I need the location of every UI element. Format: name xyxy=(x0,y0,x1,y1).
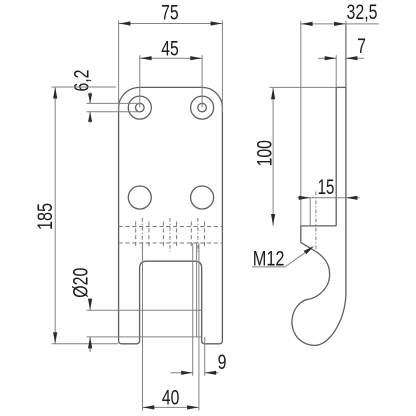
svg-text:40: 40 xyxy=(162,387,180,410)
dimension 7 line right part xyxy=(346,57,364,59)
tab right edge / 40-dim extension xyxy=(198,243,200,411)
svg-text:6,2: 6,2 xyxy=(71,70,94,92)
svg-text:M12: M12 xyxy=(253,248,285,271)
dimension 40 right arrow xyxy=(187,405,199,409)
hook bar edge extension xyxy=(204,337,206,376)
M12 leader arrow xyxy=(304,246,315,254)
dimension 7 left extension xyxy=(335,55,337,87)
top hole left outer circle xyxy=(128,96,151,119)
dimension 9 line right part xyxy=(205,372,219,374)
dimension 7 line left part xyxy=(318,57,336,59)
dimension O20 lower arrow xyxy=(88,337,92,349)
dimension 32,5 left extension xyxy=(300,21,302,226)
dimension 40 line xyxy=(143,406,199,408)
dimension 45 left extension xyxy=(139,55,141,107)
dimension 15 left extension xyxy=(309,198,311,226)
dimension 45 left arrow xyxy=(140,56,152,60)
dimension 6,2 line upper part xyxy=(89,92,91,103)
dimension 9 left arrow xyxy=(181,371,193,375)
svg-text:7: 7 xyxy=(357,35,366,58)
dimension O20 upper arrow xyxy=(88,299,92,311)
dimension 185 top extension xyxy=(52,86,117,88)
M12 leader line xyxy=(252,266,285,268)
hook bar top edge xyxy=(301,225,336,227)
bend band hidden slot 2 right edge xyxy=(176,222,178,249)
svg-text:75: 75 xyxy=(161,2,179,25)
top hole right inner circle xyxy=(198,103,207,112)
bend band lower hidden line xyxy=(119,242,223,244)
middle hole right xyxy=(191,186,214,209)
svg-text:Ø20: Ø20 xyxy=(70,268,93,298)
hook curl bottom edge (front view) xyxy=(87,336,202,338)
dimension 185 top arrow xyxy=(53,87,57,99)
top hole right outer circle xyxy=(191,96,214,119)
dimension 6,2 upper extension xyxy=(87,102,140,104)
bend band hidden slot 1 right edge xyxy=(148,222,150,249)
dimension 9 right arrow xyxy=(205,371,217,375)
dimension 6,2 lower extension xyxy=(87,111,140,113)
dimension 75 right arrow xyxy=(211,21,223,25)
dimension 15 right arrow xyxy=(346,196,358,200)
dimension 32,5 line xyxy=(301,23,379,25)
svg-text:45: 45 xyxy=(161,37,179,60)
dimension 7 left arrow xyxy=(325,56,337,60)
dimension 15 left arrow xyxy=(299,196,311,200)
dimension 32,5 left arrow xyxy=(301,22,313,26)
bend band slot 3 centerline xyxy=(197,218,199,252)
bend band hidden slot 3 right edge xyxy=(204,222,206,249)
dimension 32,5 right extension xyxy=(345,21,347,88)
dimension 15 line xyxy=(298,197,360,199)
svg-text:15: 15 xyxy=(318,176,335,199)
plate outline (front view, 75x185) xyxy=(119,87,223,343)
dimension 75 left arrow xyxy=(119,21,130,25)
dimension 100 line xyxy=(272,87,274,225)
dimension 7 right arrow xyxy=(346,56,358,60)
hook shank chamfer xyxy=(301,242,313,249)
dimension 40 left arrow xyxy=(143,405,155,409)
dimension 6,2 line lower part xyxy=(89,112,91,123)
side view plate front edge xyxy=(335,87,337,226)
dimension 75 left extension xyxy=(118,21,120,113)
bend band hidden slot 3 left edge xyxy=(190,222,192,249)
hidden edge inner xyxy=(196,243,198,337)
svg-text:100: 100 xyxy=(253,140,276,166)
hook shank centerline xyxy=(315,192,317,255)
dimension 45 right extension xyxy=(201,55,203,107)
svg-text:185: 185 xyxy=(34,203,57,230)
bend band hidden slot 2 left edge xyxy=(162,222,164,249)
dimension 185 bottom arrow xyxy=(53,332,57,344)
dimension 9 line left part xyxy=(171,372,193,374)
dimension 100 bottom arrow xyxy=(271,214,275,226)
side view plate back edge and hook outer edge xyxy=(292,25,346,346)
svg-text:32,5: 32,5 xyxy=(347,1,378,24)
hook shank S-curve front edge xyxy=(309,250,330,300)
hook curl top edge (front view) xyxy=(87,309,202,311)
dimension O20 line upper part xyxy=(89,298,91,310)
dimension 45 line xyxy=(140,57,202,59)
dimension 100 top arrow xyxy=(271,88,275,100)
dimension 75 right extension xyxy=(221,21,223,113)
bend band hidden slot 1 left edge xyxy=(135,222,137,249)
dimension 6,2 upper arrow xyxy=(88,93,92,103)
middle hole left xyxy=(128,186,151,209)
dimension 100 top extension xyxy=(270,86,337,88)
dimension 185 bottom extension xyxy=(52,343,119,345)
dimension 32,5 right arrow xyxy=(334,22,346,26)
dimension 185 line xyxy=(54,87,56,344)
tab left edge / 40-dim extension xyxy=(142,243,144,411)
dimension 75 line xyxy=(119,23,223,25)
svg-text:9: 9 xyxy=(218,351,227,374)
bend band slot 2 centerline xyxy=(169,218,171,252)
dimension 45 right arrow xyxy=(190,56,202,60)
top hole left inner circle (6.2 dia) xyxy=(136,103,145,112)
bend band upper hidden line xyxy=(119,226,223,228)
dimension 6,2 lower arrow xyxy=(88,112,92,122)
side view plate top edge xyxy=(336,86,346,88)
dimension O20 line lower part xyxy=(89,337,91,352)
bend band slot 1 centerline xyxy=(141,218,143,252)
hook bar front edge xyxy=(300,226,302,243)
hidden edge left of cutout-right xyxy=(192,243,194,376)
